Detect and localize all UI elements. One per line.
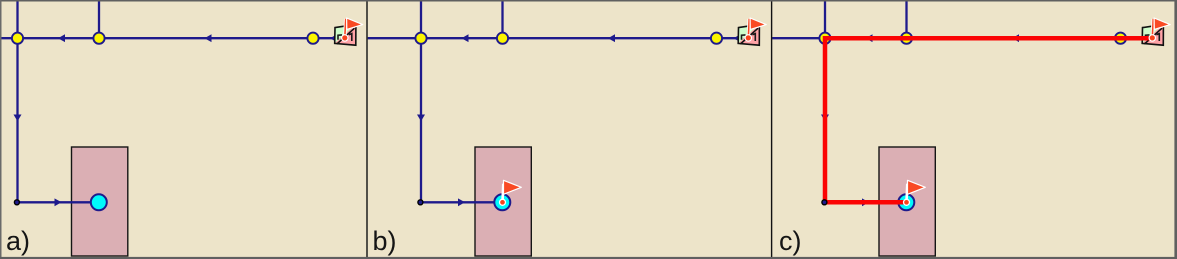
arrow left 1 c <box>866 34 873 42</box>
arrow down c <box>821 115 829 122</box>
arrow left 2 a <box>205 34 212 42</box>
arrow left 1 b <box>462 34 469 42</box>
arrow right bottom a <box>55 198 62 206</box>
wire top road b <box>368 37 749 39</box>
goal icon tile c <box>1142 24 1163 45</box>
wire vertical road 1 c <box>824 1 826 202</box>
node 1 b <box>415 33 426 44</box>
arrow left 3 b <box>734 34 741 42</box>
wire bottom path a <box>18 201 99 203</box>
corner dot a <box>14 200 19 205</box>
wire vertical road 1 a <box>16 1 18 202</box>
building c <box>879 147 935 256</box>
svg-text:c): c) <box>779 226 802 256</box>
arrow left 2 b <box>608 34 615 42</box>
separator 2 <box>771 0 772 259</box>
arrow right bottom b <box>458 198 465 206</box>
arrow right bottom c <box>862 198 869 206</box>
arrow left 2 c <box>1012 34 1019 42</box>
arrow down b <box>417 115 425 122</box>
wire top road c <box>772 37 1152 39</box>
panel c <box>772 1 1170 256</box>
target circle c <box>898 194 914 210</box>
goal icon flag a <box>342 18 363 41</box>
separator 1 <box>366 0 367 259</box>
arrow left 3 a <box>330 34 337 42</box>
node 3 c <box>1115 33 1126 44</box>
outer border <box>0 0 1177 2</box>
node 2 c <box>901 33 912 44</box>
node 2 a <box>93 33 104 44</box>
panel b <box>368 1 767 256</box>
wire top road a <box>2 37 346 39</box>
node 1 c <box>819 33 830 44</box>
svg-text:a): a) <box>6 226 30 256</box>
node 3 a <box>307 33 318 44</box>
goal icon tile b <box>738 24 759 45</box>
node 1 a <box>12 33 23 44</box>
wire vertical road 2 b <box>501 1 503 38</box>
building a <box>72 147 128 256</box>
goal icon flag c <box>1149 18 1170 41</box>
wire vertical road 1 b <box>420 1 422 202</box>
wire bottom path c <box>825 201 906 203</box>
panel a <box>2 1 363 256</box>
svg-text:b): b) <box>373 226 397 256</box>
goal icon tile a <box>335 24 356 45</box>
target flag b <box>500 180 522 205</box>
wire vertical road 2 a <box>98 1 100 38</box>
corner dot c <box>822 200 827 205</box>
building b <box>475 147 531 256</box>
goal icon flag b <box>745 18 766 41</box>
node 3 b <box>711 33 722 44</box>
target flag c <box>904 180 926 205</box>
wire bottom path b <box>421 201 502 203</box>
target circle b <box>494 194 510 210</box>
target circle a <box>91 194 107 210</box>
corner dot b <box>418 200 423 205</box>
red route c <box>825 38 1152 202</box>
node 2 b <box>497 33 508 44</box>
arrow down a <box>14 115 22 122</box>
arrow left 3 c <box>1138 34 1145 42</box>
wire vertical road 2 c <box>905 1 907 38</box>
arrow left 1 a <box>58 34 65 42</box>
